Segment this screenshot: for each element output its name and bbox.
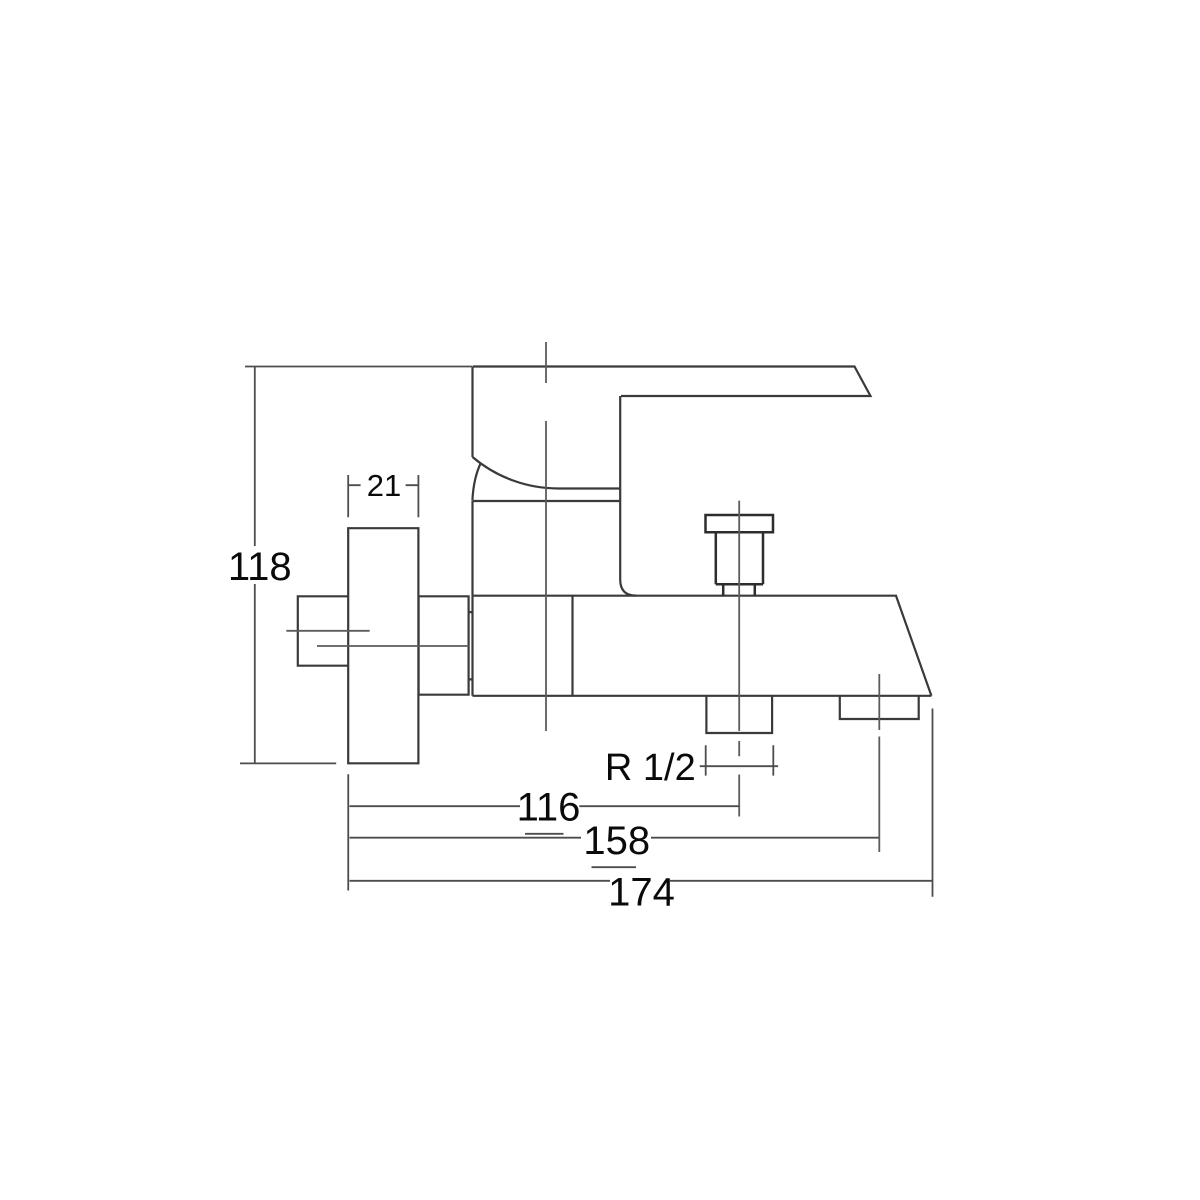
svg-text:R 1/2: R 1/2	[605, 747, 696, 789]
centerline shower outlet axis	[878, 674, 880, 852]
bath outlet	[706, 696, 772, 733]
washer step	[469, 612, 473, 679]
wall flange	[348, 528, 418, 763]
shower outlet	[840, 696, 919, 719]
break dash 158	[525, 833, 564, 835]
svg-text:21: 21	[367, 468, 401, 503]
extension line left	[347, 774, 349, 890]
dimension 21	[348, 475, 418, 517]
dimension R 1/2	[700, 745, 778, 775]
centerline knob axis	[738, 501, 740, 817]
spout body	[473, 596, 932, 696]
centerline body axis	[317, 645, 469, 647]
extension line right 174	[932, 709, 934, 897]
svg-text:158: 158	[583, 819, 650, 863]
svg-text:118: 118	[228, 545, 292, 589]
dimension 116	[350, 805, 740, 807]
diverter knob	[706, 515, 774, 596]
dimension 118	[240, 367, 473, 764]
centerline pipe axis	[286, 630, 369, 632]
connector nut	[419, 596, 469, 694]
svg-text:116: 116	[517, 786, 581, 830]
dimension 158	[350, 837, 879, 839]
centerline valve axis	[545, 342, 547, 731]
dimension 174	[350, 880, 933, 882]
valve body	[472, 367, 636, 596]
break dash 174	[592, 866, 637, 868]
svg-text:174: 174	[608, 871, 675, 915]
wall pipe	[298, 596, 348, 665]
lever handle	[473, 367, 871, 397]
